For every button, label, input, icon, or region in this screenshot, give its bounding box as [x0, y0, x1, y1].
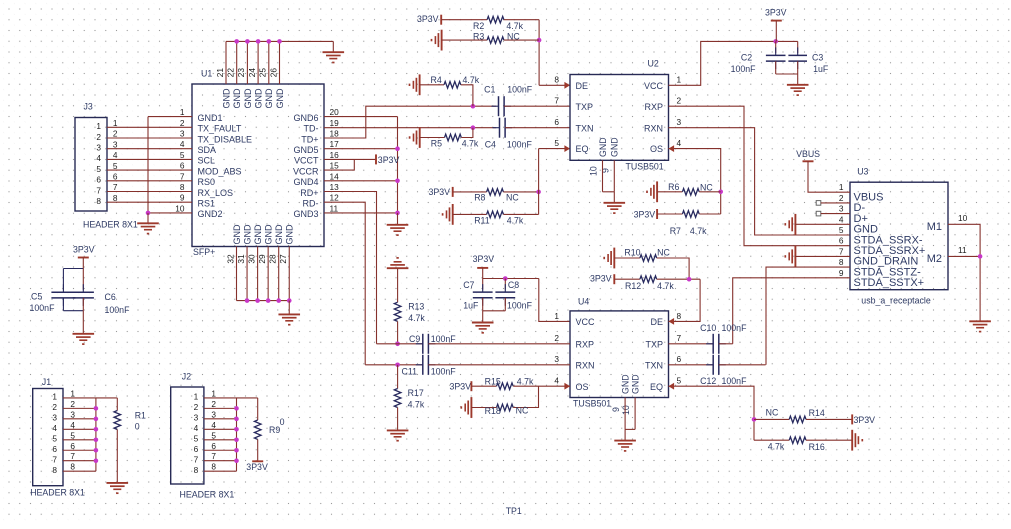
svg-text:R2: R2 — [473, 21, 484, 31]
svg-text:3: 3 — [113, 139, 118, 149]
wire U2 GND pin10 stub — [602, 160, 604, 192]
svg-text:29: 29 — [257, 254, 267, 264]
ground GND top-right of U1 — [323, 52, 345, 62]
junction top bus junction x=269 — [267, 39, 272, 44]
power 3P3V bar (R8) — [452, 187, 454, 197]
svg-text:4.7k: 4.7k — [690, 226, 707, 236]
svg-text:R18: R18 — [485, 406, 501, 416]
resistor R6 — [682, 189, 699, 196]
svg-text:9: 9 — [180, 193, 185, 203]
svg-text:3P3V: 3P3V — [73, 244, 95, 254]
svg-text:3P3V: 3P3V — [590, 274, 612, 284]
svg-text:TD+: TD+ — [301, 134, 318, 144]
svg-text:C10: C10 — [700, 323, 716, 333]
wire net C2 bottom — [775, 61, 777, 74]
wire net R18 to junction — [513, 386, 538, 407]
wire net VBUS to U3 pin1 — [808, 161, 850, 192]
junction J2 bus junction 7 — [234, 458, 239, 463]
svg-text:4.7k: 4.7k — [657, 281, 674, 291]
svg-text:11: 11 — [330, 203, 339, 213]
svg-text:R10: R10 — [624, 247, 640, 257]
wire net J3.3 to U1 pin 4 — [107, 148, 192, 150]
junction R6/R7 junction — [718, 190, 723, 195]
wire net U3 D- stub — [821, 202, 850, 204]
IC U2 TUSB501 outline — [570, 75, 669, 161]
svg-text:7: 7 — [211, 451, 216, 461]
wire net R12 to corner — [657, 278, 700, 280]
wire U1 bottom pin 28 stub — [278, 247, 280, 301]
wire U1 top pin 25 stub — [268, 41, 270, 84]
wire net J2.1 to R9 — [204, 397, 258, 399]
wire net J3.2 to U1 pin 3 — [107, 137, 192, 139]
svg-text:R17: R17 — [408, 388, 424, 398]
svg-text:7: 7 — [96, 185, 101, 195]
svg-text:RS1: RS1 — [198, 199, 216, 209]
svg-text:8: 8 — [96, 196, 101, 206]
wire net J2.6 to bus — [204, 449, 237, 451]
svg-text:21: 21 — [215, 68, 225, 78]
wire U1 top GND bus — [226, 40, 333, 42]
svg-text:17: 17 — [330, 139, 340, 149]
input arrow U2 DE input — [564, 82, 570, 89]
svg-text:DE: DE — [576, 81, 589, 91]
junction VCC/3P3V junction — [773, 39, 778, 44]
wire net R10/R12 to U4 DE — [669, 279, 701, 321]
svg-text:M2: M2 — [927, 253, 942, 265]
junction R8/R11 junction — [536, 190, 541, 195]
svg-text:4.7k: 4.7k — [506, 21, 523, 31]
svg-text:GND: GND — [232, 88, 242, 109]
connector J3 HEADER 8X1 outline — [75, 118, 107, 212]
wire net J3.1 to U1 pin 2 — [107, 126, 192, 128]
svg-text:STDA_SSTX+: STDA_SSTX+ — [854, 277, 925, 289]
power 3P3V bar (R14) — [851, 414, 853, 424]
wire net C8 bottom — [504, 298, 506, 311]
wire net C3 bottom — [797, 61, 799, 74]
ground GND (R3) — [432, 30, 442, 51]
svg-text:RXN: RXN — [644, 123, 663, 133]
svg-text:5: 5 — [554, 138, 559, 148]
wire net C6 top — [82, 269, 84, 290]
junction J1 bus junction 7 — [94, 458, 99, 463]
svg-text:SCL: SCL — [198, 156, 216, 166]
junction GND3 junction — [395, 211, 400, 216]
svg-text:NC: NC — [506, 193, 519, 203]
svg-text:HEADER 8X1: HEADER 8X1 — [83, 220, 138, 230]
svg-text:RXP: RXP — [576, 339, 595, 349]
wire net U3 D+ stub — [821, 213, 850, 215]
junction top bus junction x=247 — [245, 39, 250, 44]
svg-text:18: 18 — [330, 129, 340, 139]
wire net 3P3V to R15 — [471, 385, 496, 387]
wire net C9 to U4 RXP — [428, 343, 570, 345]
resistor R17 — [394, 389, 401, 408]
svg-text:GND: GND — [598, 137, 608, 157]
junction R2/R3 junction — [537, 38, 542, 43]
wire net R1 to GND — [116, 430, 118, 483]
resistor R3 — [487, 37, 504, 44]
svg-text:GND: GND — [243, 88, 253, 109]
svg-text:NC: NC — [657, 247, 670, 257]
svg-text:32: 32 — [225, 254, 235, 264]
wire net 3P3V to R12 — [614, 278, 640, 280]
wire net C11 to R17 — [397, 365, 399, 389]
input arrow U4 DE input — [669, 318, 675, 325]
svg-text:8: 8 — [113, 193, 118, 203]
wire net J3.5 to U1 pin 6 — [107, 169, 192, 171]
junction J2 bus junction 3 — [234, 417, 239, 422]
wire net J3.8 to U1 pin 9 — [107, 201, 192, 203]
wire net DE into U2 — [539, 84, 570, 86]
svg-text:GND: GND — [253, 224, 263, 245]
svg-text:6: 6 — [554, 117, 559, 127]
svg-text:3: 3 — [211, 409, 216, 419]
svg-text:100nF: 100nF — [722, 376, 748, 386]
ground GND (U3 GND_DRAIN) — [785, 246, 795, 267]
svg-text:4: 4 — [70, 420, 75, 430]
input arrow U2 OS input — [669, 145, 675, 152]
power 3P3V bar (VCCT/VCCR) — [375, 154, 377, 164]
svg-text:1: 1 — [96, 121, 101, 131]
svg-text:7: 7 — [839, 246, 844, 256]
svg-text:3: 3 — [70, 409, 75, 419]
svg-text:2: 2 — [113, 129, 118, 139]
svg-text:C2: C2 — [741, 53, 752, 63]
svg-text:3P3V: 3P3V — [378, 155, 400, 165]
resistor R7 — [682, 211, 699, 218]
resistor R18 — [497, 404, 514, 411]
connector J1 HEADER 8X1 outline — [33, 389, 63, 486]
svg-text:3P3V: 3P3V — [450, 382, 472, 392]
wire net R14 to 3P3V — [806, 418, 852, 420]
junction R14/R16 junction — [752, 417, 757, 422]
junction top bus junction x=237 — [234, 39, 239, 44]
wire net GND to R4 — [420, 84, 444, 86]
ground GND below C5/C6 — [73, 334, 95, 344]
wire net R5 to TXN — [461, 128, 473, 138]
wire net GND to U3 pin4 — [795, 223, 850, 225]
wire net U2 OS to R6/R7 — [669, 149, 721, 214]
junction top bus junction x=258 — [256, 39, 261, 44]
svg-text:8: 8 — [52, 465, 57, 475]
svg-text:12: 12 — [330, 193, 340, 203]
capacitor C3 — [788, 47, 807, 69]
svg-text:R12: R12 — [625, 281, 641, 291]
wire net C11 to U4 RXN — [428, 364, 570, 366]
wire net 3P3V to R2 — [441, 19, 487, 21]
svg-text:R15: R15 — [485, 377, 501, 387]
svg-text:4.7k: 4.7k — [768, 442, 785, 452]
svg-text:4.7k: 4.7k — [463, 75, 480, 85]
svg-text:R4: R4 — [431, 75, 442, 85]
junction GND5 junction — [395, 146, 400, 151]
svg-text:4.7k: 4.7k — [408, 399, 425, 409]
wire net GND to R13 — [397, 268, 399, 302]
svg-text:J3: J3 — [84, 102, 93, 112]
svg-text:R13: R13 — [408, 302, 424, 312]
wire net GND to R18 — [471, 407, 496, 409]
capacitor C5 — [51, 284, 75, 306]
wire net 3P3V to R8 — [453, 191, 487, 193]
wire net GND to R5 — [420, 137, 445, 139]
junction R10/R12 junction — [687, 277, 692, 282]
svg-text:10: 10 — [175, 203, 185, 213]
resistor R5 — [445, 134, 462, 141]
svg-text:4: 4 — [52, 423, 57, 433]
svg-text:6: 6 — [113, 172, 118, 182]
svg-text:EQ: EQ — [650, 382, 663, 392]
ground GND (R4) — [410, 74, 420, 95]
ground GND below U4 — [614, 429, 636, 451]
wire net U1 GND5 — [324, 148, 398, 150]
wire net J2.2 to bus — [204, 407, 237, 409]
svg-text:MOD_ABS: MOD_ABS — [198, 166, 242, 176]
svg-text:2: 2 — [180, 118, 185, 128]
junction J2 bus junction 5 — [234, 437, 239, 442]
wire net R3 to junction — [504, 39, 539, 41]
capacitor C6 — [73, 284, 94, 306]
svg-text:4: 4 — [211, 420, 216, 430]
svg-text:8: 8 — [839, 257, 844, 267]
svg-text:6: 6 — [211, 441, 216, 451]
wire net 3P3V to R7 — [657, 213, 682, 215]
svg-text:4.7k: 4.7k — [462, 139, 479, 149]
svg-text:C7: C7 — [463, 280, 474, 290]
svg-text:22: 22 — [226, 68, 236, 78]
wire net U3 M2 to GND — [948, 255, 980, 257]
svg-text:5: 5 — [211, 430, 216, 440]
wire net 3P3V to U4 VCC — [539, 279, 570, 322]
wire net C5 top — [62, 269, 64, 290]
svg-text:TP1: TP1 — [506, 506, 522, 516]
svg-text:6: 6 — [839, 236, 844, 246]
wire net U1 GND1 pin1 — [148, 116, 192, 118]
capacitor C2 — [766, 47, 786, 69]
svg-text:7: 7 — [180, 171, 185, 181]
resistor R2 — [487, 16, 504, 23]
wire U1 top pin 22 stub — [236, 41, 238, 84]
wire net 3P3V stem (C5/C6) — [82, 258, 84, 269]
wire U2 GND join — [603, 191, 615, 193]
junction J1 bus junction 5 — [94, 437, 99, 442]
svg-text:GND2: GND2 — [198, 209, 223, 219]
svg-text:TXN: TXN — [645, 360, 663, 370]
svg-text:C4: C4 — [485, 140, 496, 150]
resistor R9 — [254, 420, 261, 439]
svg-text:100nF: 100nF — [431, 366, 457, 376]
svg-text:TX_FAULT: TX_FAULT — [198, 124, 242, 134]
wire net R2/R3 vertical to U2 DE — [538, 20, 540, 86]
svg-text:4.7k: 4.7k — [517, 377, 534, 387]
svg-text:GND: GND — [610, 137, 620, 157]
unconnected pin marker U3 D+ no-connect — [816, 211, 821, 216]
wire net R17 to GND — [397, 408, 399, 431]
wire GND vertical right of U1 — [397, 117, 399, 213]
svg-text:6: 6 — [70, 441, 75, 451]
svg-text:7: 7 — [70, 451, 75, 461]
svg-text:9: 9 — [600, 168, 610, 173]
wire net R13 to C9 row — [397, 321, 399, 343]
svg-text:6: 6 — [194, 444, 199, 454]
svg-text:R8: R8 — [474, 193, 485, 203]
svg-text:GND: GND — [242, 224, 252, 245]
svg-text:4: 4 — [194, 423, 199, 433]
wire net R9 to 3P3V — [257, 439, 259, 461]
svg-text:3: 3 — [194, 413, 199, 423]
junction GND4 junction — [395, 179, 400, 184]
svg-text:VCC: VCC — [576, 317, 596, 327]
svg-text:5: 5 — [52, 434, 57, 444]
wire net TXP: U1 TD+ to C1 — [324, 106, 496, 138]
svg-text:J2: J2 — [182, 372, 191, 382]
svg-text:100nF: 100nF — [30, 303, 56, 313]
wire net J1.5 to bus — [63, 439, 96, 441]
svg-text:TX_DISABLE: TX_DISABLE — [198, 134, 253, 144]
svg-text:25: 25 — [258, 68, 268, 78]
svg-text:R3: R3 — [473, 32, 484, 42]
wire net J1.4 to bus — [63, 428, 96, 430]
resistor R16 — [789, 437, 806, 444]
wire U1 bottom pin 30 stub — [257, 247, 259, 301]
ground GND below U2 — [604, 192, 626, 213]
svg-text:VCCT: VCCT — [294, 156, 319, 166]
ground GND below U1 — [278, 314, 300, 324]
svg-text:RD-: RD- — [303, 199, 319, 209]
wire net GND to R11 — [453, 213, 487, 215]
wire U1 bottom pin 32 stub — [236, 247, 238, 301]
svg-text:5: 5 — [113, 161, 118, 171]
svg-text:8: 8 — [180, 182, 185, 192]
junction TXP junction — [471, 104, 476, 109]
svg-text:J1: J1 — [42, 377, 51, 387]
svg-text:U4: U4 — [578, 297, 589, 307]
svg-text:4: 4 — [839, 214, 844, 224]
wire U4 GND pin9 stub — [624, 398, 626, 430]
svg-text:R14: R14 — [809, 408, 825, 418]
svg-text:C3: C3 — [812, 53, 823, 63]
svg-text:NC: NC — [766, 408, 779, 418]
svg-text:100nF: 100nF — [105, 305, 131, 315]
wire net R15 to U4 OS — [513, 385, 570, 387]
wire U2 GND pin9 stub — [613, 160, 615, 192]
wire net U3 M1 to GND — [948, 224, 980, 321]
junction J1 bus junction 6 — [94, 448, 99, 453]
svg-text:5: 5 — [96, 164, 101, 174]
wire net U2 VCC to 3P3V/C2/C3 — [669, 41, 798, 85]
resistor R4 — [444, 82, 461, 89]
svg-text:2: 2 — [677, 96, 682, 106]
svg-text:RX_LOS: RX_LOS — [198, 188, 234, 198]
svg-text:8: 8 — [211, 462, 216, 472]
svg-text:3: 3 — [839, 204, 844, 214]
wire net U4 TXP to C10 — [669, 343, 714, 345]
svg-text:1: 1 — [70, 388, 75, 398]
svg-text:6: 6 — [180, 161, 185, 171]
svg-text:1: 1 — [180, 107, 185, 117]
junction bottom bus junction x=268 — [266, 298, 271, 303]
svg-text:GND4: GND4 — [293, 177, 318, 187]
svg-text:1: 1 — [113, 118, 118, 128]
svg-text:1uF: 1uF — [463, 301, 479, 311]
svg-text:4.7k: 4.7k — [507, 215, 524, 225]
svg-text:100nF: 100nF — [507, 301, 533, 311]
ground GND (R11) — [443, 204, 453, 225]
svg-text:RXP: RXP — [644, 102, 663, 112]
svg-text:2: 2 — [839, 193, 844, 203]
svg-text:7: 7 — [677, 333, 682, 343]
svg-text:11: 11 — [958, 245, 967, 255]
wire net J2.5 to bus — [204, 439, 237, 441]
wire net R10 to junction — [657, 258, 689, 279]
wire net U1 GND4 — [324, 180, 398, 182]
wire net EQ into U2 — [539, 148, 570, 150]
svg-text:4: 4 — [677, 138, 682, 148]
ground GND (U3 pin4) — [785, 214, 795, 235]
ground GND below J3 — [137, 213, 159, 234]
wire net GND to U3 pin7 — [795, 255, 850, 257]
wire net C10 to corner — [719, 343, 733, 345]
svg-text:1: 1 — [52, 392, 57, 402]
svg-text:GND: GND — [285, 224, 295, 245]
svg-text:13: 13 — [330, 182, 340, 192]
svg-text:C6: C6 — [105, 292, 116, 302]
wire net C6 bottom — [82, 298, 84, 334]
capacitor C9 — [416, 334, 436, 354]
power 3P3V bar (R12) — [613, 274, 615, 284]
svg-text:26: 26 — [268, 68, 278, 78]
svg-text:100nF: 100nF — [431, 334, 457, 344]
wire U1 bottom pin 31 stub — [246, 247, 248, 301]
svg-text:1: 1 — [194, 392, 199, 402]
svg-text:4: 4 — [96, 153, 101, 163]
svg-text:GND6: GND6 — [293, 113, 318, 123]
svg-text:8: 8 — [194, 465, 199, 475]
ground GND right of U3 — [969, 321, 991, 331]
svg-text:NC: NC — [507, 32, 520, 42]
wire net C1 to U2 TXP — [504, 105, 570, 107]
svg-text:6: 6 — [677, 354, 682, 364]
svg-text:C11: C11 — [402, 366, 418, 376]
svg-text:10: 10 — [589, 166, 599, 176]
svg-text:NC: NC — [516, 406, 529, 416]
svg-text:2: 2 — [194, 402, 199, 412]
svg-text:3P3V: 3P3V — [634, 210, 656, 220]
svg-text:U1: U1 — [201, 69, 212, 79]
ground GND right of U1 — [387, 213, 409, 235]
svg-text:C8: C8 — [508, 280, 519, 290]
wire net GND to R6 — [657, 191, 682, 193]
resistor R1 — [114, 411, 121, 430]
svg-text:5: 5 — [70, 430, 75, 440]
wire net U1 VCCR — [324, 159, 354, 170]
resistor R8 — [487, 189, 504, 196]
svg-text:GND3: GND3 — [293, 209, 318, 219]
capacitor C8 — [495, 284, 515, 306]
wire net J1.7 to bus — [63, 460, 96, 462]
svg-text:4.7k: 4.7k — [408, 313, 425, 323]
svg-text:U3: U3 — [857, 167, 868, 177]
junction J2 bus junction 4 — [234, 427, 239, 432]
wire net U1 RD+ to C9 — [324, 192, 377, 344]
resistor R10 — [640, 255, 657, 262]
svg-text:100nF: 100nF — [731, 64, 757, 74]
wire top bus to ground — [332, 41, 334, 52]
wire net J3.7 to U1 pin 8 — [107, 191, 192, 193]
wire net U4 EQ to R14/R16 — [669, 386, 755, 440]
input arrow U4 OS input — [564, 383, 570, 390]
wire net J2.8 to bus — [204, 470, 237, 472]
wire net C7/C8 top join — [483, 278, 539, 280]
